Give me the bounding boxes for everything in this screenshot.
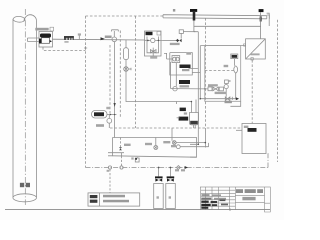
condenser outlet stubs bbox=[189, 69, 201, 73]
accessories box bbox=[205, 46, 241, 102]
chimney bottom ellipse bbox=[13, 194, 37, 202]
peristaltic twin circles bbox=[172, 56, 180, 63]
bottom frame line bbox=[5, 209, 270, 211]
pump P1 bbox=[151, 38, 155, 42]
stadium outlet wire bbox=[107, 114, 117, 116]
analyzer pins bbox=[244, 44, 246, 46]
analyzer signal dashed bbox=[251, 60, 253, 124]
cal line corner up bbox=[266, 154, 268, 168]
trap label 1 bbox=[180, 108, 186, 112]
dashed to note box bbox=[110, 156, 122, 193]
plc box bbox=[242, 124, 266, 154]
chimney top break curve bbox=[13, 15, 37, 22]
title text row 1 bbox=[236, 189, 263, 193]
dashed enclosure left edge bbox=[85, 16, 87, 168]
tick T1 bbox=[79, 35, 87, 50]
trap pot bbox=[190, 113, 199, 125]
down arrow on wire bbox=[114, 103, 116, 107]
signature blobs bbox=[201, 194, 228, 209]
gas regulator 2 bbox=[167, 176, 175, 181]
water trap pot wires bbox=[191, 100, 196, 113]
solenoid box bbox=[179, 30, 183, 34]
signal dashed wire down B bbox=[119, 31, 121, 118]
dashed enclosure bottom edge bbox=[110, 127, 242, 129]
junction circle 2 bbox=[120, 166, 123, 169]
probe tag text bbox=[35, 28, 48, 31]
trap label 2 bbox=[179, 117, 189, 121]
pump inner frame bbox=[147, 37, 159, 53]
3way label bbox=[170, 43, 180, 45]
plc label bbox=[248, 128, 257, 132]
small drain pump bbox=[173, 87, 177, 91]
box valve 2 bbox=[154, 146, 158, 150]
vent tick bbox=[231, 97, 233, 100]
twin feed L bbox=[164, 53, 172, 59]
drain component under box bbox=[136, 156, 138, 159]
box valve 1 bbox=[119, 147, 122, 150]
pump note text bbox=[150, 56, 157, 58]
vent line bbox=[200, 98, 237, 100]
bus drop wire right bbox=[198, 32, 200, 145]
pressure regulator bbox=[225, 80, 229, 84]
wire valve to box bbox=[114, 42, 116, 138]
bus label 1 bbox=[173, 9, 175, 12]
bottom solid box bbox=[108, 138, 197, 158]
small pump circle bbox=[107, 118, 112, 123]
inlet assembly bbox=[208, 87, 212, 91]
rotameter bbox=[234, 66, 238, 73]
note box bbox=[88, 193, 140, 206]
condenser label 1 bbox=[180, 65, 191, 69]
stadium label bbox=[94, 112, 104, 116]
junction circle 1 bbox=[108, 166, 111, 169]
box wires bbox=[156, 128, 206, 146]
pump bottom bowtie bbox=[150, 48, 156, 56]
filter F1 bbox=[124, 48, 129, 60]
rotameter label box bbox=[231, 54, 238, 59]
superscript note bbox=[106, 107, 110, 109]
chimney label bbox=[20, 183, 24, 187]
probe tube into stack bbox=[28, 38, 40, 42]
rotameter dashed feed bbox=[205, 70, 234, 72]
chimney vessel left wall bbox=[12, 19, 14, 197]
cal arrow bbox=[185, 166, 188, 169]
gas cylinder 2 bbox=[166, 184, 176, 209]
condenser label 2 bbox=[179, 80, 190, 84]
calibration dash-dot line bbox=[86, 167, 269, 169]
signal dashed wire down A bbox=[109, 45, 111, 115]
valve V1 label bbox=[105, 36, 112, 39]
title block bbox=[200, 187, 270, 212]
right long dashed wire bbox=[277, 20, 279, 162]
analyzer feed wire bbox=[200, 45, 245, 47]
probe tag box bbox=[50, 27, 54, 31]
gas regulator 1 bbox=[155, 176, 163, 181]
cal diamond valve bbox=[176, 166, 180, 170]
box valve 3 bbox=[172, 141, 176, 145]
bus label 2 bbox=[259, 9, 264, 12]
title text row 2 bbox=[242, 197, 255, 200]
solenoid wire to bus drop bbox=[183, 31, 198, 33]
vent valve bowtie bbox=[225, 97, 230, 101]
three-way valve bbox=[176, 40, 178, 42]
drain tee tick bbox=[176, 102, 178, 105]
valve V1 bbox=[112, 37, 117, 42]
cable tray top line bbox=[163, 13, 269, 26]
vent arrow bbox=[236, 97, 239, 100]
bus up arrow 1 bbox=[193, 12, 196, 21]
main sample line bbox=[53, 39, 177, 40]
box inner dashed drop bbox=[120, 138, 122, 148]
probe signal dashed wire bbox=[43, 47, 86, 51]
drain valve bbox=[124, 67, 129, 72]
filter drop wire bbox=[126, 40, 191, 102]
bus up arrow 2 bbox=[260, 16, 262, 21]
probe box bbox=[39, 32, 53, 48]
T0.1 text bbox=[96, 124, 104, 127]
condenser drop wires bbox=[171, 62, 177, 89]
pump box bbox=[145, 31, 162, 56]
dashed enclosure top edge bbox=[86, 15, 164, 17]
analyzer box bbox=[246, 39, 266, 59]
condensate line bbox=[171, 88, 208, 90]
exhaust stadium box bbox=[92, 111, 108, 119]
box valve 4 bbox=[176, 145, 180, 149]
pump box title bbox=[146, 32, 153, 35]
cal wire ups bbox=[159, 168, 171, 177]
gas cylinder 1 bbox=[154, 184, 164, 209]
pump box corner tag bbox=[157, 31, 161, 35]
dashed enclosure right edge bbox=[204, 18, 206, 128]
dashed enclosure divider bbox=[135, 16, 137, 128]
probe heated body bbox=[39, 34, 52, 44]
L-structure right bbox=[180, 128, 208, 148]
chimney centerline bbox=[24, 9, 26, 205]
plc stub bbox=[236, 129, 242, 131]
condenser box bbox=[170, 53, 193, 75]
rotameter wire bbox=[234, 59, 235, 99]
chimney vessel right wall bbox=[36, 21, 38, 197]
heated line marker bbox=[64, 36, 74, 43]
flow arrow bbox=[101, 37, 105, 40]
bypass L wire bbox=[230, 101, 240, 106]
analyzer bottom port bbox=[251, 58, 253, 60]
